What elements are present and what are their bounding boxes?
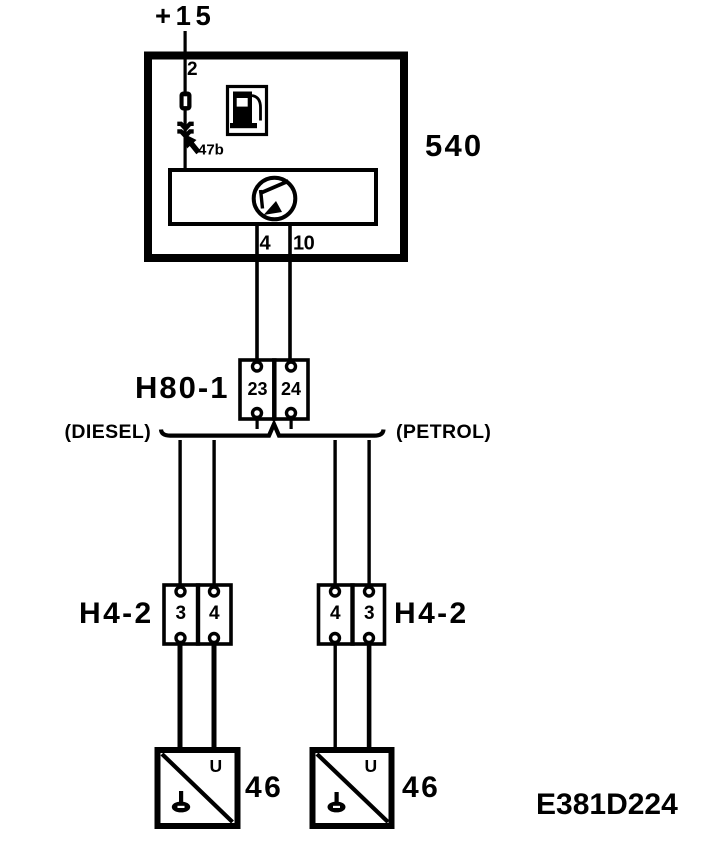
fuse 47b body [180, 92, 192, 111]
ECU / instrument unit box 540 [148, 56, 404, 259]
svg-text:H80-1: H80-1 [135, 370, 229, 405]
svg-text:H4-2: H4-2 [79, 597, 154, 630]
wire petrol 1 to H4-2:4 [333, 440, 336, 587]
inline connector chevrons on fuse wire [177, 124, 193, 136]
wire H4-2:3 petrol to sender 46 [367, 642, 372, 748]
svg-text:46: 46 [245, 771, 283, 804]
svg-text:46: 46 [402, 771, 440, 804]
svg-text:(PETROL): (PETROL) [396, 421, 491, 443]
svg-text:2: 2 [187, 59, 198, 80]
svg-text:24: 24 [281, 379, 301, 399]
svg-text:47b: 47b [198, 142, 224, 159]
svg-text:4: 4 [209, 603, 220, 624]
svg-text:4: 4 [260, 233, 272, 255]
connector H4-2 diesel [164, 583, 231, 646]
svg-text:23: 23 [248, 379, 268, 399]
wire stub below H80-1:24 [290, 417, 293, 429]
wire H4-2:4 petrol to sender 46 [334, 642, 337, 748]
svg-text:4: 4 [330, 603, 341, 624]
wire diesel 2 to H4-2:4 [212, 440, 215, 587]
wire pin 4 to H80-1:23 [255, 224, 259, 362]
wire from +15 down into unit 540 [184, 31, 187, 170]
connector H4-2 petrol [319, 583, 385, 646]
svg-text:H4-2: H4-2 [394, 597, 469, 630]
svg-text:E381D224: E381D224 [536, 788, 678, 821]
brace alternative split [161, 424, 384, 436]
svg-text:540: 540 [425, 128, 483, 163]
wire H4-2:3 diesel to sender 46 [178, 642, 183, 748]
wire petrol 2 to H4-2:3 [367, 440, 370, 587]
wire H4-2:4 diesel to sender 46 [212, 642, 217, 748]
svg-text:+15: +15 [155, 0, 215, 31]
fuel pump motor assembly box [170, 170, 376, 224]
wire diesel 1 to H4-2:3 [178, 440, 181, 587]
svg-text:(DIESEL): (DIESEL) [65, 421, 152, 443]
connection arrow 47b [184, 134, 199, 153]
connector H80-1 [240, 358, 308, 421]
fuel level sender 46 diesel [158, 750, 238, 826]
fuel level sender 46 petrol [313, 750, 392, 826]
svg-text:10: 10 [293, 233, 315, 255]
svg-text:U: U [365, 756, 378, 776]
pump motor symbol [254, 178, 296, 220]
svg-text:3: 3 [176, 603, 187, 624]
wire pin 10 to H80-1:24 [288, 224, 292, 362]
fuel pump icon frame [228, 87, 267, 135]
svg-text:3: 3 [364, 603, 375, 624]
wire stub below H80-1:23 [256, 417, 259, 429]
fuel pump dispenser glyph [230, 92, 261, 129]
svg-text:U: U [210, 756, 223, 776]
